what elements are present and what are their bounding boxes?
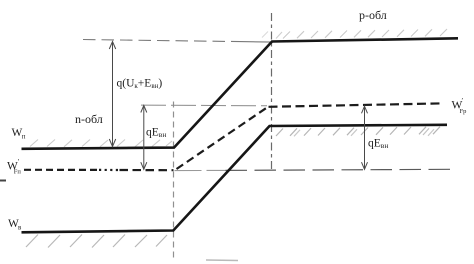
svg-text:п: п: [22, 132, 26, 140]
svg-text:р-обл: р-обл: [359, 8, 387, 22]
svg-text:Fп: Fп: [14, 169, 22, 176]
svg-text:Fр: Fр: [460, 108, 467, 115]
svg-text:n-обл: n-обл: [75, 112, 103, 126]
